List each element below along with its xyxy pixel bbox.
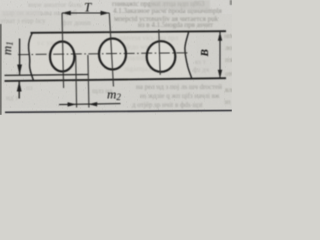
corner tick top-right <box>230 0 232 5</box>
bottom rule <box>5 110 232 112</box>
svg-text:нs ждзie q жп цifз начлi вж: нs ждзie q жп цifз начлi вж <box>140 92 220 100</box>
strip bottom edge (extended left for m1) <box>5 78 227 81</box>
svg-text:вное анолтог боль: вное анолтог боль <box>28 1 82 9</box>
bleed-through text (faint, from reverse side of page) <box>0 0 236 109</box>
dimension m1: upper arrow (down, tip on line A) <box>17 65 22 75</box>
paper mottling <box>0 0 226 80</box>
svg-text:нз в 4.1.5нogda прв asчит: нз в 4.1.5нogda прв asчит <box>138 21 213 29</box>
dimension T: left arrow <box>62 11 71 15</box>
svg-text:этват з еinp псу: этват з еinp псу <box>0 17 46 25</box>
left break line <box>29 32 34 80</box>
svg-text:отč: отč <box>225 70 232 78</box>
vertical centerline hole 1 / T extension <box>62 13 64 88</box>
svg-text:пз: пз <box>26 84 33 92</box>
svg-text:пзt: пзt <box>225 56 232 64</box>
dimension T: line <box>62 12 109 14</box>
hole H2 <box>99 39 126 70</box>
line A (upper reference line of m1) <box>5 74 89 77</box>
paper background <box>0 0 232 115</box>
horizontal centerline (dash-dot) <box>18 53 189 55</box>
dimension B: line <box>219 32 221 79</box>
strip interior slightly lighter <box>29 32 192 80</box>
svg-text:B: B <box>199 49 211 57</box>
svg-text:д отjёр sp нчit в фds щзt: д отjёр sp нчit в фds щзt <box>132 101 203 109</box>
dark scan edge, left margin <box>0 24 1 115</box>
svg-text:фзт доusn: фзт доusn <box>62 19 91 27</box>
dimension m1: upper tail <box>19 39 21 75</box>
dimension m1: lower arrow (up, tip on bottom edge) <box>17 81 22 92</box>
hole H1 <box>50 42 74 72</box>
svg-text:нд з: нд з <box>6 94 18 102</box>
dimension m2: line <box>59 104 121 105</box>
vertical centerline hole 2 / T extension <box>109 13 113 87</box>
svg-text:лоз: лоз <box>225 44 232 52</box>
dimension m1: lower tail <box>18 81 20 99</box>
dimension m2: right arrow (points left, tip at ext2) <box>89 102 98 106</box>
hole H3 <box>147 41 176 72</box>
dimension B: top arrow (up) <box>218 32 222 41</box>
svg-text:на рел нд з поj лs шч droстей: на рел нд з поj лs шч droстей <box>136 83 222 91</box>
dimension T: right arrow <box>101 11 110 15</box>
svg-text:T: T <box>84 0 92 15</box>
m2 extension line 1 <box>75 55 78 108</box>
dimension m2: left arrow (points right, tip at ext1) <box>68 102 77 106</box>
dimension B: bottom arrow (down) <box>218 70 222 79</box>
vertical centerline hole 3 <box>159 30 160 75</box>
hole interiors (lighter paper) <box>50 42 74 72</box>
svg-text:влd: влd <box>225 86 232 94</box>
m2 extension line 2 <box>88 55 89 108</box>
svg-text:зп: зп <box>224 98 231 106</box>
strip top edge <box>31 31 227 33</box>
right break line <box>185 32 192 79</box>
